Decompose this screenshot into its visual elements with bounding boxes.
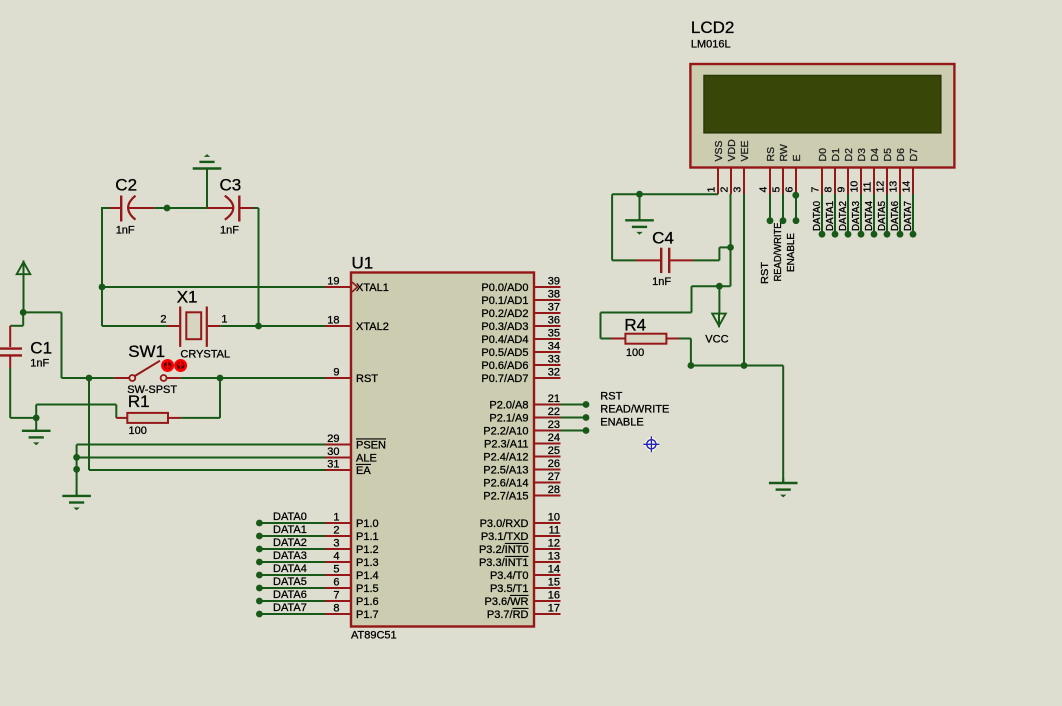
svg-text:24: 24 — [548, 432, 560, 444]
wire LCD D2 to DATA2 — [847, 194, 849, 234]
svg-text:5: 5 — [771, 187, 783, 193]
svg-text:2: 2 — [160, 313, 166, 325]
svg-text:DATA0: DATA0 — [811, 201, 823, 231]
svg-text:D4: D4 — [869, 148, 881, 162]
switch SW1 toggle button down-arrow — [162, 360, 172, 370]
wire C2 left to loop-left corner — [101, 207, 110, 209]
svg-text:P1.1: P1.1 — [356, 531, 379, 543]
svg-text:D5: D5 — [882, 148, 894, 162]
svg-text:8: 8 — [333, 603, 339, 615]
svg-text:18: 18 — [327, 315, 339, 327]
wire loop-left vertical down to XTAL2 row — [101, 208, 103, 326]
wire R1 right to RST junction — [181, 417, 220, 419]
svg-text:1: 1 — [221, 313, 227, 325]
origin marker (blue crosshair) — [642, 435, 660, 453]
svg-text:4: 4 — [333, 551, 339, 563]
svg-text:22: 22 — [548, 406, 560, 418]
LCD2 screen — [704, 76, 941, 133]
U1 pin 15 P3.5/T1 — [534, 587, 561, 589]
wire LCD RW to READ/WRITE net — [782, 194, 784, 221]
wire VEE row horizontal — [691, 365, 783, 367]
svg-text:11: 11 — [862, 181, 874, 192]
node junction dot VEE — [741, 362, 748, 369]
svg-text:P2.4/A12: P2.4/A12 — [483, 451, 528, 463]
U1 pin 18 XTAL2 — [325, 325, 351, 327]
U1 pin 28 P2.7/A15 — [534, 495, 561, 497]
node junction dot C4/VDD — [727, 244, 734, 251]
wire DATA6 to U1 P1.6 — [259, 600, 325, 602]
svg-text:RST: RST — [759, 261, 771, 284]
wire DATA7 to U1 P1.7 — [259, 613, 325, 615]
svg-text:DATA3: DATA3 — [273, 550, 307, 562]
ground symbol PSEN/ALE net — [76, 490, 78, 496]
svg-text:15: 15 — [548, 577, 560, 589]
node junction dot RST/EA branch — [86, 375, 93, 382]
node junction dot ALE row — [73, 454, 80, 461]
svg-text:9: 9 — [333, 367, 339, 379]
svg-text:ALE: ALE — [356, 452, 377, 464]
node DATA5 dot at LCD — [884, 231, 891, 238]
wire LCD D3 to DATA3 — [860, 194, 862, 234]
svg-text:LCD2: LCD2 — [691, 18, 734, 37]
svg-text:XTAL1: XTAL1 — [356, 282, 389, 294]
svg-text:1nF: 1nF — [220, 225, 239, 237]
svg-text:37: 37 — [548, 302, 560, 314]
power terminal arrow (up) top-left — [17, 262, 31, 274]
svg-text:C3: C3 — [220, 176, 242, 195]
U1 pin 19 XTAL1 — [325, 286, 351, 288]
wire C4 right to VDD net — [693, 259, 719, 261]
U1 pin 36 P0.3/AD3 — [534, 325, 561, 327]
wire LCD VDD down — [730, 194, 732, 286]
wire X1 pin1 to loop-right junction — [220, 325, 258, 327]
svg-text:31: 31 — [327, 459, 339, 471]
svg-text:DATA2: DATA2 — [837, 201, 849, 231]
svg-text:27: 27 — [548, 471, 560, 483]
svg-text:1: 1 — [333, 512, 339, 524]
svg-text:D0: D0 — [817, 148, 829, 162]
ground symbol VEE/R4 net — [782, 478, 784, 483]
wire XTAL1 row to U1 — [102, 286, 325, 288]
U1 pin 16 P3.6/WR — [534, 600, 561, 602]
U1 pin 2 P1.1 — [325, 535, 351, 537]
svg-text:P2.5/A13: P2.5/A13 — [483, 464, 528, 476]
U1 pin 7 P1.6 — [325, 600, 351, 602]
wire U1 P2.0 to net RST — [561, 404, 587, 406]
svg-text:DATA3: DATA3 — [850, 201, 862, 231]
svg-text:AT89C51: AT89C51 — [351, 630, 397, 642]
U1 pin 38 P0.1/AD1 — [534, 299, 561, 301]
U1 pin 13 P3.3/INT1 — [534, 561, 561, 563]
svg-text:EA: EA — [356, 465, 371, 477]
wire C2 right to ground stem — [154, 207, 207, 209]
svg-text:P2.1/A9: P2.1/A9 — [489, 412, 528, 424]
svg-text:6: 6 — [333, 577, 339, 589]
svg-text:12: 12 — [875, 181, 887, 193]
svg-text:P3.4/T0: P3.4/T0 — [490, 570, 529, 582]
svg-text:DATA0: DATA0 — [273, 511, 307, 523]
node DATA6 dot at LCD — [897, 231, 904, 238]
wire LCD VSS down and left — [717, 193, 719, 195]
clock input chevron on XTAL1 — [352, 282, 358, 292]
svg-text:19: 19 — [327, 276, 339, 288]
svg-text:P3.0/RXD: P3.0/RXD — [480, 518, 529, 530]
U1 pin 26 P2.5/A13 — [534, 469, 561, 471]
U1 pin 11 P3.1/TXD — [534, 535, 561, 537]
U1 AT89C51 body — [351, 273, 534, 627]
wire C1 bottom to ground junction — [9, 368, 11, 418]
svg-text:3: 3 — [333, 538, 339, 550]
svg-text:32: 32 — [548, 367, 560, 379]
wire LCD D0 to DATA0 — [821, 194, 823, 234]
svg-text:D7: D7 — [908, 148, 920, 162]
node DATA2 dot at LCD — [845, 231, 852, 238]
wire LCD E to ENABLE net — [795, 194, 797, 221]
svg-text:D3: D3 — [856, 148, 868, 162]
svg-text:9: 9 — [836, 187, 848, 193]
svg-text:P0.0/AD0: P0.0/AD0 — [481, 282, 528, 294]
node junction dot C1/R1/ground — [33, 415, 40, 422]
node junction dot RST/R1 net — [217, 375, 224, 382]
svg-text:P2.7/A15: P2.7/A15 — [483, 490, 528, 502]
wire VEE row to ground — [782, 366, 784, 483]
node DATA1 terminal dot — [256, 533, 263, 540]
svg-text:34: 34 — [548, 341, 560, 353]
svg-text:5: 5 — [333, 564, 339, 576]
node DATA3 terminal dot — [256, 559, 263, 566]
wire DATA2 to U1 P1.2 — [259, 548, 325, 550]
wire EA row — [89, 469, 325, 471]
switch SW1 SW-SPST — [114, 377, 129, 379]
svg-text:1nF: 1nF — [30, 358, 49, 370]
node DATA7 dot at LCD — [910, 231, 917, 238]
node junction dot C2-C3 net — [164, 205, 171, 212]
svg-text:100: 100 — [626, 347, 644, 359]
svg-text:2: 2 — [333, 525, 339, 537]
svg-text:P2.6/A14: P2.6/A14 — [483, 477, 528, 489]
U1 pin 17 P3.7/RD — [534, 613, 561, 615]
svg-text:1nF: 1nF — [116, 225, 135, 237]
node junction dot VCC stem — [716, 283, 723, 290]
svg-text:P0.5/AD5: P0.5/AD5 — [481, 347, 528, 359]
svg-text:21: 21 — [548, 393, 560, 405]
svg-text:23: 23 — [548, 419, 560, 431]
U1 pin 6 P1.5 — [325, 587, 351, 589]
wire LCD D4 to DATA4 — [873, 194, 875, 234]
U1 pin 1 P1.0 — [325, 522, 351, 524]
wire loop-right vertical down to XTAL2 row — [258, 208, 260, 326]
wire XTAL2 row left of X1 — [102, 325, 168, 327]
node junction dot R4/VEE row — [688, 362, 695, 369]
svg-text:DATA7: DATA7 — [273, 602, 307, 614]
svg-text:35: 35 — [548, 328, 560, 340]
node junction dot XTAL1 net at loop-left — [99, 284, 106, 291]
svg-text:C1: C1 — [30, 339, 52, 358]
svg-text:4: 4 — [758, 187, 770, 193]
svg-text:DATA6: DATA6 — [273, 589, 307, 601]
svg-text:DATA4: DATA4 — [863, 201, 875, 231]
resistor R1 100 — [116, 417, 127, 419]
U1 pin 3 P1.2 — [325, 548, 351, 550]
svg-text:1nF: 1nF — [652, 276, 671, 288]
svg-text:38: 38 — [548, 289, 560, 301]
svg-text:LM016L: LM016L — [691, 39, 731, 51]
node DATA3 dot at LCD — [858, 231, 865, 238]
ground symbol (up) at crystal loop — [206, 169, 208, 209]
wire power junction down to C1 — [22, 312, 24, 325]
wire RST row left segment to SW1 — [62, 377, 115, 379]
node DATA0 dot at LCD — [819, 231, 826, 238]
node dot ENABLE — [583, 427, 590, 434]
wire LCD D5 to DATA5 — [886, 194, 888, 234]
wire DATA0 to U1 P1.0 — [259, 522, 325, 524]
U1 pin 37 P0.2/AD2 — [534, 312, 561, 314]
U1 pin 33 P0.6/AD6 — [534, 364, 561, 366]
wire U1 P2.1 to net READ/WRITE — [561, 417, 587, 419]
svg-text:DATA7: DATA7 — [902, 201, 914, 231]
node DATA1 dot at LCD — [832, 231, 839, 238]
node DATA2 terminal dot — [256, 546, 263, 553]
wire R4 right down to VEE row — [679, 338, 691, 340]
node junction dot VSS ground — [636, 191, 643, 198]
wire U1 P2.2 to net ENABLE — [561, 430, 587, 432]
svg-text:VDD: VDD — [726, 139, 738, 162]
svg-text:7: 7 — [333, 590, 339, 602]
svg-text:P2.0/A8: P2.0/A8 — [489, 399, 528, 411]
power terminal arrow (down) VCC — [712, 314, 726, 326]
svg-text:RST: RST — [600, 391, 622, 403]
svg-text:DATA1: DATA1 — [824, 201, 836, 231]
svg-text:R4: R4 — [624, 316, 646, 335]
svg-text:CRYSTAL: CRYSTAL — [180, 349, 230, 361]
LCD2 LM016L body — [690, 64, 954, 168]
node dot READ/WRITE — [583, 414, 590, 421]
svg-text:P3.5/T1: P3.5/T1 — [490, 583, 529, 595]
svg-text:XTAL2: XTAL2 — [356, 321, 389, 333]
svg-text:8: 8 — [823, 187, 835, 193]
svg-text:READ/WRITE: READ/WRITE — [772, 223, 784, 282]
svg-text:READ/WRITE: READ/WRITE — [600, 404, 669, 416]
svg-text:DATA5: DATA5 — [273, 576, 307, 588]
U1 pin 39 P0.0/AD0 — [534, 286, 561, 288]
wire PSEN/ALE vertical to ground — [76, 445, 78, 495]
node READ/WRITE dot — [780, 217, 787, 224]
wire DATA1 to U1 P1.1 — [259, 535, 325, 537]
svg-text:P0.6/AD6: P0.6/AD6 — [481, 360, 528, 372]
wire SW1 to RST junction — [181, 377, 325, 379]
svg-text:C4: C4 — [652, 229, 674, 248]
svg-text:P0.1/AD1: P0.1/AD1 — [481, 295, 528, 307]
U1 pin 22 P2.1/A9 — [534, 417, 561, 419]
svg-text:P1.5: P1.5 — [356, 583, 379, 595]
U1 pin 5 P1.4 — [325, 574, 351, 576]
svg-text:RS: RS — [765, 147, 777, 162]
svg-text:RST: RST — [356, 373, 378, 385]
svg-text:P3.1/TXD: P3.1/TXD — [481, 531, 529, 543]
node junction dot power/C1 net — [20, 309, 27, 316]
wire LCD D7 to DATA7 — [912, 194, 914, 234]
svg-text:D2: D2 — [843, 148, 855, 162]
node junction dot on ground branch — [73, 466, 80, 473]
svg-text:DATA1: DATA1 — [273, 524, 307, 536]
U1 pin 14 P3.4/T0 — [534, 574, 561, 576]
svg-text:P3.3/INT1: P3.3/INT1 — [479, 557, 529, 569]
U1 pin 34 P0.5/AD5 — [534, 351, 561, 353]
svg-text:P1.7: P1.7 — [356, 609, 379, 621]
wire power junction to SW1 branch — [23, 311, 61, 313]
U1 pin 35 P0.4/AD4 — [534, 338, 561, 340]
node DATA0 terminal dot — [256, 520, 263, 527]
svg-text:DATA6: DATA6 — [889, 201, 901, 231]
U1 pin 29 PSEN — [325, 444, 351, 446]
U1 pin 12 P3.2/INT0 — [534, 548, 561, 550]
svg-text:X1: X1 — [177, 288, 198, 307]
wire jog from ground junction to R1 left — [35, 405, 37, 418]
node DATA4 dot at LCD — [871, 231, 878, 238]
wire DATA4 to U1 P1.4 — [259, 574, 325, 576]
svg-text:P0.4/AD4: P0.4/AD4 — [481, 334, 528, 346]
node ENABLE dot — [793, 217, 800, 224]
wire LCD D1 to DATA1 — [834, 194, 836, 234]
svg-text:P0.3/AD3: P0.3/AD3 — [481, 321, 528, 333]
svg-text:D6: D6 — [895, 148, 907, 162]
capacitor C2 — [110, 207, 120, 209]
U1 pin 4 P1.3 — [325, 561, 351, 563]
U1 pin 25 P2.4/A12 — [534, 456, 561, 458]
U1 pin 31 EA — [325, 469, 351, 471]
svg-text:10: 10 — [548, 512, 560, 524]
svg-text:U1: U1 — [352, 254, 374, 273]
svg-text:P1.0: P1.0 — [356, 518, 379, 530]
svg-text:12: 12 — [548, 538, 560, 550]
node RST dot — [767, 217, 774, 224]
svg-text:39: 39 — [548, 276, 560, 288]
U1 pin 23 P2.2/A10 — [534, 430, 561, 432]
svg-text:100: 100 — [129, 425, 147, 437]
svg-text:E: E — [791, 154, 803, 161]
svg-text:VEE: VEE — [739, 140, 751, 161]
svg-text:DATA4: DATA4 — [273, 563, 307, 575]
svg-text:SW1: SW1 — [128, 342, 165, 361]
switch SW1 toggle button up-arrow — [175, 360, 185, 370]
svg-text:11: 11 — [549, 525, 560, 537]
svg-text:P3.6/WR: P3.6/WR — [484, 596, 528, 608]
svg-text:33: 33 — [548, 354, 560, 366]
U1 pin 27 P2.6/A14 — [534, 482, 561, 484]
node DATA6 terminal dot — [256, 598, 263, 605]
wire VDD row to R4 branch — [692, 285, 731, 287]
svg-text:17: 17 — [548, 603, 560, 615]
node DATA4 terminal dot — [256, 572, 263, 579]
svg-text:13: 13 — [888, 181, 900, 193]
node DATA7 terminal dot — [256, 611, 263, 618]
wire VCC stem — [718, 286, 720, 313]
svg-text:PSEN: PSEN — [356, 439, 386, 451]
ground symbol VSS net — [639, 194, 641, 220]
svg-text:P1.6: P1.6 — [356, 596, 379, 608]
svg-text:25: 25 — [548, 445, 560, 457]
node DATA5 terminal dot — [256, 585, 263, 592]
svg-text:DATA2: DATA2 — [273, 537, 307, 549]
svg-text:29: 29 — [327, 433, 339, 445]
svg-text:P2.2/A10: P2.2/A10 — [483, 425, 528, 437]
node dot on ENABLE wire — [792, 192, 799, 199]
svg-text:2: 2 — [719, 187, 731, 193]
U1 pin 32 P0.7/AD7 — [534, 377, 561, 379]
capacitor C3 — [207, 207, 233, 209]
svg-text:ENABLE: ENABLE — [785, 233, 797, 272]
svg-text:13: 13 — [548, 551, 560, 563]
svg-text:3: 3 — [732, 187, 744, 193]
svg-text:P0.2/AD2: P0.2/AD2 — [481, 308, 528, 320]
svg-text:P1.3: P1.3 — [356, 557, 379, 569]
wire power arrow stem — [23, 274, 25, 313]
wire VDD branch down-left to R4 — [691, 286, 693, 312]
svg-text:P0.7/AD7: P0.7/AD7 — [481, 373, 528, 385]
svg-text:VCC: VCC — [705, 334, 728, 346]
ground symbol below C1 junction — [35, 418, 37, 431]
svg-text:P2.3/A11: P2.3/A11 — [484, 438, 528, 450]
node junction dot X1 pin1 / XTAL2 net — [255, 323, 262, 330]
svg-text:14: 14 — [901, 181, 913, 193]
wire DATA3 to U1 P1.3 — [259, 561, 325, 563]
svg-text:P3.2/INT0: P3.2/INT0 — [479, 544, 529, 556]
U1 pin 10 P3.0/RXD — [534, 522, 561, 524]
svg-text:7: 7 — [810, 187, 822, 193]
svg-text:D1: D1 — [830, 148, 842, 162]
svg-text:VSS: VSS — [713, 140, 725, 161]
wire EA branch vertical from RST junction — [88, 378, 90, 470]
U1 pin 21 P2.0/A8 — [534, 404, 561, 406]
svg-text:P1.2: P1.2 — [356, 544, 379, 556]
svg-text:16: 16 — [548, 590, 560, 602]
svg-text:C2: C2 — [115, 176, 137, 195]
U1 pin 30 ALE — [325, 457, 351, 459]
svg-text:30: 30 — [327, 446, 339, 458]
wire LCD D6 to DATA6 — [899, 194, 901, 234]
svg-text:R1: R1 — [128, 392, 150, 411]
svg-text:P3.7/RD: P3.7/RD — [487, 609, 529, 621]
wire ALE row — [77, 457, 325, 459]
svg-text:ENABLE: ENABLE — [600, 417, 643, 429]
wire PSEN row — [77, 444, 325, 446]
wire VSS net down to C4 left — [611, 194, 613, 260]
wire C3 right lead to loop-right corner — [253, 207, 259, 209]
resistor R4 100 — [611, 338, 625, 340]
wire DATA5 to U1 P1.5 — [259, 587, 325, 589]
capacitor C4 1nF — [636, 259, 660, 261]
U1 pin 24 P2.3/A11 — [534, 443, 561, 445]
svg-text:P1.4: P1.4 — [356, 570, 379, 582]
wire XTAL2 row right of X1 to U1 — [259, 325, 326, 327]
svg-text:RW: RW — [778, 144, 790, 161]
wire LCD RS to RST net — [769, 194, 771, 221]
node dot RST — [583, 401, 590, 408]
crystal X1 — [168, 325, 180, 327]
svg-text:14: 14 — [548, 564, 560, 576]
svg-text:26: 26 — [548, 458, 560, 470]
svg-text:DATA5: DATA5 — [876, 201, 888, 231]
U1 pin 9 RST — [325, 377, 351, 379]
svg-text:36: 36 — [548, 315, 560, 327]
svg-text:28: 28 — [548, 484, 560, 496]
capacitor C1 — [9, 326, 11, 347]
svg-text:1: 1 — [706, 187, 718, 193]
U1 pin 8 P1.7 — [325, 613, 351, 615]
wire LCD VEE down — [743, 194, 745, 366]
svg-text:10: 10 — [849, 181, 861, 193]
svg-text:6: 6 — [784, 187, 796, 193]
